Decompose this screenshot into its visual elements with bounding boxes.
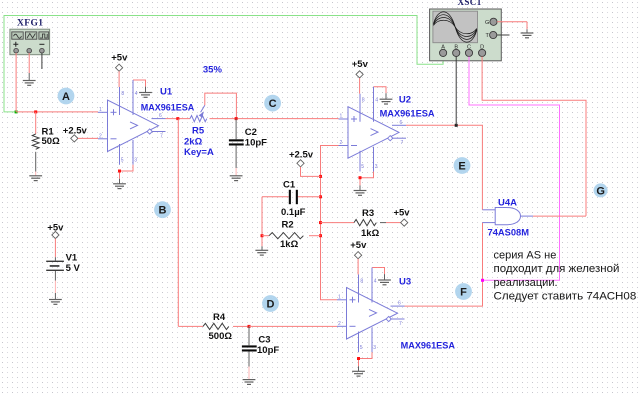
wire: XSC1 ground terminal G to ground [497, 22, 527, 33]
node F bubble [455, 283, 472, 300]
svg-text:U4A: U4A [498, 197, 517, 208]
wire: scope channel B (black) down to node E [455, 57, 457, 126]
op-amp U3 MAX961ESA comparator with +5v supply and grounds [337, 240, 405, 376]
svg-text:XSC1: XSC1 [458, 0, 482, 7]
svg-text:A: A [62, 91, 70, 103]
potentiometer R5 2kOhm (blue zigzag with wiper arrow) [190, 105, 207, 122]
wire: U2 pin2 to divider node (red) [321, 146, 339, 300]
svg-text:1kΩ: 1kΩ [280, 239, 299, 250]
svg-text:C: C [269, 98, 277, 110]
svg-text:G: G [596, 185, 605, 197]
labels R3 / 1kOhm [361, 208, 380, 239]
svg-text:XFG1: XFG1 [17, 18, 43, 28]
labels R5 / 2kOhm / Key=A [184, 126, 214, 159]
junction dot at R2 left [261, 234, 264, 237]
wire: XFG1 COM terminal to ground [28, 53, 30, 81]
svg-text:Key=A: Key=A [184, 147, 214, 158]
ground: below C1/R2 branch [255, 250, 268, 255]
svg-text:A: A [441, 45, 445, 51]
op-amp U2 MAX961ESA comparator with +5v supply and grounds [339, 59, 407, 195]
svg-text:F: F [460, 287, 467, 299]
svg-text:подходит для железной: подходит для железной [494, 263, 620, 275]
node B bubble [154, 201, 171, 218]
wire: XFG1 + output (red) down to node A net [15, 53, 17, 112]
svg-text:U2: U2 [399, 94, 411, 105]
svg-text:MAX961ESA: MAX961ESA [141, 102, 195, 113]
junction dot (magenta) on node F wire [481, 279, 484, 282]
wire: XSC1 trigger T stub [497, 34, 510, 36]
capacitor C1 0.1uF (horizontal) [262, 190, 321, 204]
svg-text:5 V: 5 V [66, 263, 81, 274]
svg-text:C3: C3 [258, 334, 270, 345]
svg-text:10pF: 10pF [245, 137, 267, 148]
labels R4 / 500Ohm [209, 312, 233, 342]
wire: XFG1 - terminal stub (black, unconnected) [41, 53, 43, 69]
svg-text:10pF: 10pF [257, 345, 279, 356]
junction dot at R4/C3 (node D) [248, 325, 251, 328]
svg-text:D: D [267, 299, 275, 311]
svg-text:35%: 35% [203, 65, 223, 76]
svg-text:2kΩ: 2kΩ [184, 137, 203, 148]
svg-text:D: D [480, 45, 484, 51]
wire: node E net, U2 output to AND gate input A [406, 125, 482, 210]
+2.5v diamond terminal 2 [297, 160, 304, 167]
wire: U1 output to R5 (node B/C net) [166, 118, 191, 120]
svg-text:C1: C1 [283, 179, 296, 190]
wire: +2.5v to divider junction [301, 167, 321, 177]
svg-text:B: B [454, 45, 458, 51]
battery V1 5V [46, 239, 64, 300]
svg-text:серия AS не: серия AS не [494, 250, 557, 262]
wire: R5 wiper feedback loop (red) [205, 93, 237, 119]
junction dot at R1 top [34, 110, 37, 113]
svg-text:U3: U3 [399, 276, 411, 287]
wire: +2.5v to U1 pin 2 [78, 137, 98, 139]
label R1 / 50Ohm [42, 126, 61, 147]
capacitor C2 10pF to ground [229, 119, 244, 176]
instrument XFG1 (function generator) body [10, 29, 50, 55]
ground: below V1 [49, 300, 62, 305]
wire: node C net from C2 junction to U2 pin 1 [236, 118, 338, 120]
labels R2 / 1kOhm [280, 220, 299, 250]
labels C2 / 10pF [245, 127, 267, 148]
svg-text:R2: R2 [282, 220, 294, 231]
junction dot at U1 output / node B [176, 117, 179, 120]
node A bubble [58, 88, 75, 105]
wire: R5 right terminal to C2 junction [210, 118, 237, 120]
ground: below R1 [29, 176, 42, 181]
node E bubble [454, 157, 471, 174]
labels C1 / 0.1uF [281, 179, 306, 218]
svg-text:R5: R5 [192, 126, 205, 137]
wire: green net from XFG1 output around top edge to oscilloscope channel A [4, 16, 443, 112]
labels V1 / 5 V [66, 252, 81, 274]
svg-text:реализации.: реализации. [494, 277, 558, 289]
ground: XSC1 G [521, 33, 534, 38]
svg-text:R3: R3 [362, 208, 374, 219]
wire: node A net, red horizontal from XFG1 to U1 pin1 [16, 111, 98, 113]
svg-text:74AS08M: 74AS08M [488, 228, 530, 239]
junction dots on divider column [319, 175, 322, 237]
svg-text:R4: R4 [213, 312, 226, 323]
svg-text:C: C [467, 45, 471, 51]
ground: below C2 [230, 176, 243, 181]
svg-text:G: G [485, 20, 489, 26]
node D bubble [262, 295, 279, 312]
labels C3 / 10pF [257, 334, 279, 356]
svg-text:U1: U1 [160, 86, 173, 97]
node C bubble [264, 95, 281, 112]
+2.5v diamond terminal [71, 135, 78, 142]
resistor R3 1kOhm to +5v [321, 220, 401, 226]
wire: node B net, red vertical from U1 output down to R4 [177, 119, 179, 327]
node G bubble [594, 183, 608, 197]
svg-text:MAX961ESA: MAX961ESA [401, 341, 456, 352]
wire: scope channel D (red) to AND output / node G [482, 57, 586, 216]
+5v diamond terminal at R3 [401, 219, 408, 226]
resistor R1 50Ohm to ground [32, 112, 39, 176]
svg-text:500Ω: 500Ω [209, 331, 233, 342]
op-amp U1 MAX961ESA comparator with +5v supply and grounds [98, 52, 166, 188]
svg-text:50Ω: 50Ω [42, 136, 61, 147]
svg-text:V1: V1 [66, 252, 78, 263]
junction dot (black) where scope B taps node E [455, 124, 458, 127]
+5v diamond terminal (V1) [52, 231, 59, 238]
wire: node B to R4 [178, 325, 203, 327]
resistor R4 500Ohm [203, 323, 249, 329]
power +2.5v supply for U1 inverting input [63, 125, 88, 136]
svg-text:Следует ставить 74АСН08: Следует ставить 74АСН08 [494, 290, 637, 302]
resistor R2 1kOhm [262, 233, 321, 239]
svg-text:B: B [159, 205, 167, 217]
svg-text:+5v: +5v [393, 207, 410, 218]
ground: XFG1 COM ground [23, 81, 36, 86]
junction: green node dot at XFG1 + output [15, 110, 18, 113]
svg-text:E: E [458, 161, 465, 173]
wire: AND output to node G / scope D [533, 215, 586, 217]
junction dot at C2 [235, 117, 238, 120]
svg-text:MAX961ESA: MAX961ESA [380, 108, 435, 119]
wire: node F net, U3 output to AND gate input B [405, 223, 483, 307]
wire: C1/R2 left branch down to ground [261, 197, 263, 251]
svg-text:+2.5v: +2.5v [289, 150, 314, 161]
AND gate U4A 74AS08M [482, 208, 533, 225]
svg-text:0.1µF: 0.1µF [281, 207, 306, 218]
wire: scope channel C (magenta) to node F [469, 57, 560, 281]
wire: node D net to U3 pin 2 [249, 325, 337, 327]
svg-text:1kΩ: 1kΩ [361, 228, 380, 239]
annotation text (Russian note) [494, 250, 637, 303]
svg-text:+2.5v: +2.5v [63, 125, 88, 136]
capacitor C3 10pF to ground [242, 326, 257, 379]
instrument XSC1 (oscilloscope) body with screen and terminals [430, 9, 502, 61]
ground: below C3 [243, 380, 256, 385]
